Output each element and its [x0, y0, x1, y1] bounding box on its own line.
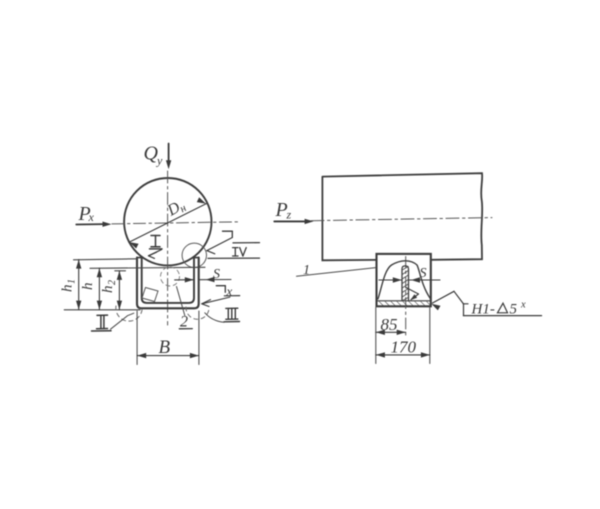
horizontal centerline — [112, 222, 240, 224]
bracket centerline — [405, 257, 407, 339]
force Qy arrow — [168, 144, 170, 163]
III leader — [205, 313, 224, 323]
bottom baseline extension — [64, 309, 140, 311]
II leader — [111, 313, 134, 329]
overline — [233, 242, 260, 244]
weld arrow inside box — [406, 288, 419, 300]
svg-text:S: S — [213, 267, 220, 282]
label II — [92, 315, 112, 331]
svg-text:h: h — [60, 285, 76, 293]
detail circle IV (around right contact point) — [182, 243, 206, 267]
roller circle — [124, 178, 211, 265]
position label 1 — [303, 263, 310, 278]
corner mark k — [216, 286, 225, 293]
svg-text:85: 85 — [381, 315, 398, 334]
dimension h1 — [78, 260, 80, 310]
dimension B extension lines — [136, 311, 138, 365]
svg-text:z: z — [286, 208, 292, 222]
detail circle III (dashed, bottom-right corner) — [186, 307, 209, 319]
svg-text:2: 2 — [180, 314, 188, 331]
rib thickness dimension s — [379, 279, 402, 281]
tilted plate inside channel — [142, 288, 158, 302]
rib bar (hatched) — [402, 266, 409, 301]
dimension 85 extension + line — [375, 308, 377, 364]
gusset bell curve — [378, 261, 431, 299]
label IV block — [208, 231, 260, 258]
weld designation text H1-d5x — [471, 302, 495, 318]
view I leader arrow — [149, 250, 162, 259]
weld designation shelf — [464, 315, 542, 317]
line at roller bottom level (h top extension) — [90, 267, 205, 268]
bracket box — [377, 254, 431, 306]
channel inner contour — [142, 258, 194, 303]
IV glyph — [233, 247, 238, 249]
svg-text:H1-: H1- — [471, 302, 495, 318]
2 leader — [177, 287, 185, 316]
channel wall top caps — [137, 257, 142, 259]
leader for 1 — [297, 268, 376, 277]
underline — [208, 257, 260, 259]
force Px label — [78, 203, 95, 225]
label 2 — [180, 314, 188, 331]
beam centerline — [311, 218, 492, 221]
force Qy label — [144, 143, 164, 168]
diameter dimension Dn — [129, 204, 206, 243]
wall thickness dimension S — [175, 279, 194, 281]
base plate top line — [377, 300, 431, 302]
label III — [224, 308, 240, 322]
detail circle 2 (dashed, bottom contact) — [161, 267, 180, 286]
channel outer contour — [137, 258, 199, 309]
view label I — [150, 236, 163, 249]
svg-text:B: B — [159, 337, 171, 358]
IV leader arrow — [207, 238, 233, 254]
dimension B line — [137, 355, 199, 357]
svg-text:h: h — [100, 286, 116, 294]
force Pz label — [275, 199, 292, 222]
svg-text:5: 5 — [510, 302, 518, 318]
svg-text:1: 1 — [67, 279, 78, 284]
dimension 170 line — [376, 354, 430, 356]
detail circle II (dashed, bottom-left corner) — [116, 306, 142, 321]
svg-text:2: 2 — [107, 280, 118, 285]
svg-text:x: x — [88, 210, 95, 224]
dimension h2 — [118, 271, 120, 310]
h1 top extension line — [74, 259, 138, 260]
beam rectangle — [322, 173, 482, 260]
svg-text:x: x — [520, 300, 526, 311]
h2 top tick — [115, 270, 126, 272]
weld designation leader — [433, 291, 469, 315]
force Pz arrow — [274, 220, 305, 222]
vertical centerline — [167, 171, 169, 325]
base plate hatching — [377, 301, 430, 306]
svg-text:170: 170 — [391, 338, 417, 357]
k leader arrow — [202, 297, 230, 306]
svg-text:h: h — [80, 283, 96, 291]
svg-text:S: S — [420, 266, 427, 281]
svg-text:y: y — [156, 154, 163, 168]
dimension h — [98, 268, 100, 309]
force Px arrow — [76, 223, 104, 225]
bracket over IV — [223, 230, 233, 232]
